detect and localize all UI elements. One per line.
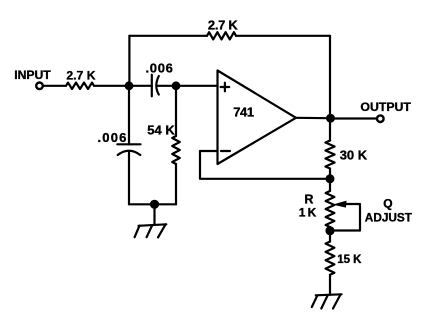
output terminal (377, 115, 384, 122)
op-amp U1 triangle (218, 71, 297, 165)
ground bus junction (150, 200, 159, 209)
label 2.7 K (feedback resistor) (208, 17, 238, 32)
svg-text:R: R (304, 192, 313, 206)
svg-text:.006: .006 (98, 130, 128, 145)
wire 54K to ground bus (175, 164, 177, 204)
label 30 K (340, 148, 368, 163)
svg-text:OUTPUT: OUTPUT (360, 100, 411, 114)
svg-text:2.7 K: 2.7 K (66, 68, 95, 82)
wire output node to 30K (329, 118, 331, 140)
wire op-amp output to node (296, 117, 330, 120)
label 2.7 K (input resistor) (66, 68, 95, 82)
wire node A up to feedback (128, 36, 130, 86)
label 741 (233, 105, 254, 120)
wire node A down to C2 (128, 86, 130, 145)
svg-text:Q: Q (383, 196, 392, 210)
wire to output terminal (331, 117, 378, 119)
label OUTPUT (360, 100, 411, 114)
svg-text:30 K: 30 K (340, 148, 368, 163)
input terminal (36, 83, 43, 90)
wire C1 to node B and op-amp + input (157, 85, 218, 87)
node D junction (pot bottom) (325, 226, 334, 235)
svg-text:2.7 K: 2.7 K (208, 17, 238, 32)
svg-text:INPUT: INPUT (14, 68, 51, 82)
label .006 (series capacitor) (146, 60, 174, 75)
output node junction (326, 114, 335, 123)
node B junction (172, 81, 181, 90)
resistor 30 K (325, 141, 334, 169)
wire node B down to 54K (175, 86, 177, 136)
resistor R1 2.7 K (input) (66, 83, 94, 89)
op-amp + sign (221, 83, 230, 92)
wiper arrow and wire (333, 201, 361, 231)
svg-text:15 K: 15 K (337, 254, 362, 266)
svg-text:ADJUST: ADJUST (365, 211, 413, 225)
feedback wire down to output node (329, 36, 331, 118)
capacitor C1 .006 (series) (152, 75, 159, 97)
ground bus wire (129, 203, 176, 205)
svg-text:54 K: 54 K (147, 123, 175, 138)
wire 30K to node C (329, 169, 331, 179)
label 15 K (337, 254, 362, 266)
label Q ADJUST (365, 196, 413, 224)
svg-text:741: 741 (233, 105, 254, 120)
resistor 54 K (172, 136, 180, 164)
wire 15K to ground (329, 275, 331, 295)
potentiometer R 1 K (326, 191, 335, 227)
label INPUT (14, 68, 51, 82)
op-amp - sign (221, 150, 230, 152)
node A junction (125, 81, 134, 90)
capacitor C2 .006 (shunt) (117, 144, 140, 155)
wire junction to ground symbol (153, 204, 155, 225)
wire C2 to ground bus (128, 153, 130, 205)
feedback top wire (left) (129, 35, 207, 37)
label R 1 K (299, 192, 317, 219)
ground symbol (left) (135, 224, 167, 237)
resistor 15 K (326, 242, 335, 275)
feedback top wire (right) (236, 35, 330, 37)
svg-text:1 K: 1 K (299, 206, 317, 220)
wire pot to 15K (329, 227, 331, 242)
wire node C to potentiometer (329, 179, 331, 191)
node C junction (326, 174, 335, 183)
wire input terminal to R1 (43, 85, 66, 87)
label 54 K (147, 123, 175, 138)
resistor R2 2.7 K (feedback) (207, 32, 236, 39)
svg-text:.006: .006 (146, 60, 174, 75)
wire R1 to node A (94, 85, 152, 87)
ground symbol (right) (312, 294, 342, 308)
wire inverting input feedback (200, 151, 330, 179)
label .006 (shunt capacitor) (98, 130, 128, 145)
